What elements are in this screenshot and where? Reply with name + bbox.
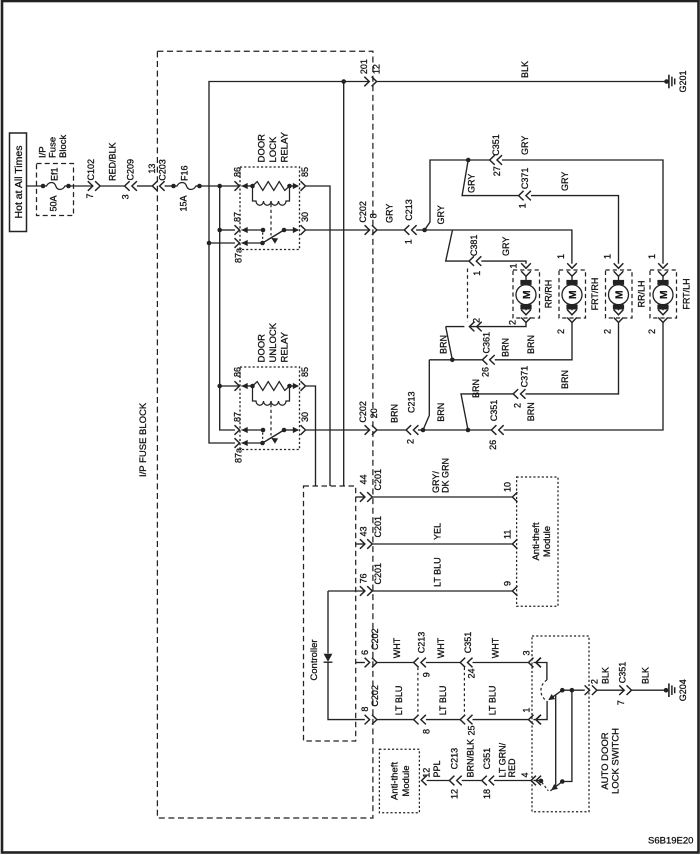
svg-text:PPL: PPL	[432, 760, 442, 777]
vertical feed column to relay 87 pins	[220, 186, 235, 430]
svg-text:2: 2	[647, 329, 657, 334]
svg-text:GRY: GRY	[520, 136, 530, 155]
svg-text:25: 25	[467, 725, 477, 735]
svg-text:9: 9	[422, 672, 432, 677]
motor FRT/LH inner bottom chevron	[658, 310, 668, 315]
motor RR/LH pin 2 chevron	[614, 318, 624, 323]
svg-text:BLK: BLK	[520, 61, 530, 78]
wire Hot-at-All-Times to fuse Ef1	[27, 185, 44, 187]
svg-text:1: 1	[472, 271, 482, 276]
wire LT BLU to switch pin 1	[473, 719, 529, 721]
ground G201	[664, 79, 669, 84]
svg-text:WHT: WHT	[436, 637, 446, 658]
svg-text:DOOR: DOOR	[256, 134, 267, 163]
main GRY wire to FRT/RH motor pin 1	[425, 230, 572, 264]
motor FRT/RH inner top chevron	[567, 271, 577, 276]
power door lock motor RR/LH box	[606, 270, 633, 318]
diagonal branch from main GRY row to C381 pin 1 row	[446, 230, 470, 261]
motor RR/LH inner top chevron	[614, 271, 624, 276]
svg-text:YEL: YEL	[433, 523, 443, 540]
power door lock motor RR/RH box	[513, 270, 540, 318]
svg-text:BRN: BRN	[471, 379, 481, 398]
svg-text:86: 86	[233, 167, 243, 177]
connector C213 pin 1	[404, 225, 409, 235]
svg-text:LT BLU: LT BLU	[488, 686, 498, 716]
switch pivot dots	[560, 688, 565, 693]
svg-text:18: 18	[482, 789, 492, 799]
svg-text:BRN/BLK: BRN/BLK	[466, 739, 476, 778]
connector C201 pin 76	[360, 586, 365, 596]
diagonal branch to C371 pin 2 row	[461, 394, 513, 430]
wire WHT to C213 pin 9	[377, 662, 414, 664]
relay pin 86 chevron	[235, 381, 240, 391]
wire unlock relay 85 down to controller	[306, 386, 316, 486]
connector C213 pin 2	[406, 425, 411, 435]
wire BRN to RR/LH motor pin 2	[526, 323, 619, 394]
svg-text:9: 9	[503, 581, 513, 586]
svg-text:C351: C351	[489, 400, 499, 422]
relay coil	[242, 183, 248, 189]
motor RR/RH inner top chevron	[521, 271, 531, 276]
connector C209 pin 3	[125, 181, 130, 191]
relay pin 87 chevron	[235, 425, 240, 435]
svg-text:GRY: GRY	[560, 172, 570, 191]
wire GRY/DK GRN to anti-theft pin 10	[372, 496, 512, 498]
ground G204	[664, 688, 669, 693]
wire lock relay 30 to C202 pin 8	[306, 229, 370, 231]
bottom BRN row to junction	[423, 429, 468, 431]
svg-text:M: M	[613, 290, 625, 299]
svg-text:8: 8	[369, 213, 379, 218]
svg-text:BLK: BLK	[641, 667, 651, 684]
svg-text:1: 1	[518, 203, 528, 208]
svg-text:13: 13	[147, 164, 157, 174]
fuse F16 15A	[171, 184, 176, 189]
svg-text:7: 7	[616, 700, 626, 705]
svg-text:4: 4	[520, 772, 530, 777]
svg-text:BRN: BRN	[501, 338, 511, 357]
svg-text:2: 2	[472, 318, 482, 323]
wire RED/BLK C102 to C209	[100, 185, 125, 187]
svg-text:3: 3	[121, 194, 131, 199]
svg-text:RR/RH: RR/RH	[544, 280, 554, 309]
svg-text:1: 1	[556, 254, 566, 259]
controller pin 6 C202 wire	[356, 662, 365, 664]
switch output wire to pin 2	[562, 689, 585, 691]
motor RR/RH pin 2 chevron	[521, 318, 531, 323]
anti-theft pin 10 chevron	[512, 492, 517, 502]
wire F16 to door lock relay pin 86	[200, 185, 240, 187]
junction dot lock relay 87a	[207, 241, 212, 246]
svg-text:BRN: BRN	[389, 404, 399, 423]
connector C202 pin 8	[365, 225, 370, 235]
svg-text:26: 26	[488, 440, 498, 450]
connector C201 pin 44	[360, 492, 365, 502]
switch pin 1 inner chevron	[536, 715, 541, 725]
switch lower pivot dot	[560, 779, 565, 784]
svg-text:Anti-theft: Anti-theft	[390, 762, 401, 800]
svg-text:201: 201	[359, 59, 369, 74]
switch pin 3 internal wire	[534, 663, 547, 681]
svg-text:Module: Module	[401, 765, 412, 796]
svg-text:Hot at All Times: Hot at All Times	[13, 146, 25, 219]
svg-text:10: 10	[503, 482, 513, 492]
svg-text:BRN: BRN	[526, 335, 536, 354]
relay armature	[263, 230, 285, 243]
svg-text:C381: C381	[469, 235, 479, 257]
svg-text:GRY/: GRY/	[431, 471, 441, 493]
connector C381 pin 1	[469, 256, 474, 266]
svg-text:AUTO DOOR: AUTO DOOR	[600, 732, 611, 789]
svg-text:8: 8	[360, 707, 370, 712]
connector C381 pin 2	[469, 322, 474, 332]
svg-text:RED/BLK: RED/BLK	[108, 142, 118, 181]
connector C203 pin 13 at fuse block boundary	[152, 181, 157, 191]
connector C202 pin 8 bottom	[365, 715, 370, 725]
svg-text:F16: F16	[180, 165, 190, 181]
motor RR/LH pin 1 chevron	[614, 263, 624, 268]
wire LT GRN/RED to switch pin 4	[494, 780, 531, 782]
power door lock motor FRT/RH box	[559, 270, 586, 318]
Controller dashed box	[304, 486, 356, 741]
svg-text:DK GRN: DK GRN	[441, 458, 451, 493]
svg-text:C213: C213	[404, 199, 414, 221]
svg-text:87a: 87a	[234, 448, 244, 463]
svg-text:50A: 50A	[49, 195, 59, 211]
relay coil	[242, 383, 248, 389]
svg-text:UNLOCK: UNLOCK	[268, 322, 279, 362]
switch pin 4 chevron	[531, 776, 536, 786]
switch pin 4 travel dashed link	[542, 782, 549, 791]
svg-text:C361: C361	[482, 332, 492, 354]
svg-text:15A: 15A	[179, 195, 189, 211]
svg-text:C371: C371	[520, 168, 530, 190]
wire LT BLU to anti-theft pin 9	[372, 590, 512, 592]
switch pin 1 internal wire	[534, 701, 548, 720]
svg-text:C209: C209	[126, 159, 136, 181]
motor RR/RH symbol	[525, 276, 527, 280]
svg-text:85: 85	[300, 167, 310, 177]
svg-text:C202: C202	[358, 401, 368, 423]
motor RR/LH inner bottom chevron	[614, 310, 624, 315]
motor FRT/LH pin 1 chevron	[658, 263, 668, 268]
connector C351 pin 24	[460, 658, 465, 668]
wire GRY to RR/RH motor pin 1	[481, 261, 526, 264]
svg-text:FRT/RH: FRT/RH	[590, 278, 600, 311]
ground wire from top run down to controller	[343, 82, 345, 487]
svg-text:GRY: GRY	[467, 174, 477, 193]
switch upper armature	[549, 690, 562, 699]
junction dot main feed to relay 87 branch	[217, 184, 222, 189]
svg-text:85: 85	[300, 367, 310, 377]
svg-text:C201: C201	[373, 563, 383, 585]
junction dot upper BRN row	[450, 358, 455, 363]
wire C209 to C203	[137, 185, 153, 187]
svg-text:6: 6	[360, 650, 370, 655]
svg-text:24: 24	[467, 668, 477, 678]
connector C351 pins 24-25 dashed link	[463, 668, 465, 715]
diagonal C381 row to upper BRN row	[446, 327, 453, 360]
svg-text:RELAY: RELAY	[279, 131, 290, 162]
connector C371 pin 2	[513, 389, 518, 399]
svg-text:BRN: BRN	[439, 335, 449, 354]
motor RR/RH pin 1 chevron	[521, 263, 531, 268]
motor FRT/RH pin 1 chevron	[567, 263, 577, 268]
svg-text:20: 20	[369, 408, 379, 418]
switch pin 3 chevrons	[529, 658, 534, 668]
junction dot bottom BRN row	[466, 428, 471, 433]
relay pin 86 chevron	[235, 181, 240, 191]
motor FRT/LH pin 2 chevron	[658, 318, 668, 323]
svg-text:C203: C203	[158, 159, 168, 181]
svg-text:7: 7	[85, 193, 95, 198]
svg-text:12: 12	[450, 789, 460, 799]
top ground wire from relay feed column to connector 201	[209, 82, 369, 244]
controller pin 76 C201 wire	[328, 590, 365, 592]
connector C351 pin 25	[460, 715, 465, 725]
I/P FUSE BLOCK dashed boundary box	[157, 51, 373, 818]
branch up to upper GRY row	[425, 160, 469, 230]
fuse Ef1 50A	[41, 184, 46, 189]
motor FRT/RH inner bottom chevron	[567, 310, 577, 315]
wire from RR/RH motor pin 2 to C381 pin 2	[469, 323, 526, 327]
svg-text:C202: C202	[370, 628, 380, 650]
relay switch contacts	[242, 427, 248, 433]
svg-text:C371: C371	[520, 366, 530, 388]
wire WHT to C351 pin 24	[426, 662, 461, 664]
wire GRY through C351 pin 27 to FRT/LH motor pin 1	[468, 159, 490, 161]
controller pin 43 C201 wire	[356, 543, 365, 545]
wire BLK to ground G201	[377, 81, 667, 83]
svg-text:Block: Block	[58, 135, 69, 158]
svg-text:1: 1	[603, 254, 613, 259]
svg-text:BRN: BRN	[526, 402, 536, 421]
svg-text:2: 2	[406, 439, 416, 444]
svg-text:27: 27	[492, 166, 502, 176]
wire to unlock relay 86	[220, 385, 240, 387]
svg-text:G201: G201	[678, 70, 688, 92]
connector C202 pin 6	[365, 658, 370, 668]
svg-text:RR/LH: RR/LH	[637, 280, 647, 307]
svg-text:BRN: BRN	[560, 370, 570, 389]
switch pin 4 contact dot	[539, 779, 544, 784]
wire fuse to C102	[69, 185, 93, 187]
svg-text:WHT: WHT	[491, 637, 501, 658]
connector C213 pins 9-8 dashed link	[417, 668, 419, 715]
door lock relay box	[240, 167, 300, 250]
wire C381 pin2 leftward	[446, 326, 465, 328]
AUTO DOOR LOCK SWITCH dotted box	[532, 636, 589, 812]
internal wire diode to pin 8	[328, 662, 365, 720]
wire unlock relay 30 to C202 pin 20	[306, 429, 370, 431]
wire BRN to C213 pin 2	[377, 429, 407, 431]
wire GRY junction	[416, 229, 425, 231]
svg-text:Anti-theft: Anti-theft	[531, 522, 542, 560]
relay switch contacts	[242, 227, 248, 233]
relay coil-armature dashed link	[270, 404, 272, 436]
switch pin 1 chevrons	[529, 715, 534, 725]
svg-text:LOCK SWITCH: LOCK SWITCH	[610, 728, 621, 794]
svg-text:RED: RED	[507, 758, 517, 778]
Anti-theft Module dotted box (middle)	[517, 477, 558, 606]
svg-text:BLK: BLK	[601, 667, 611, 684]
motor FRT/LH symbol	[662, 276, 664, 280]
svg-text:C213: C213	[417, 632, 427, 654]
relay coil-armature dashed link	[270, 204, 272, 236]
switch pin 3 inner chevron	[536, 658, 541, 668]
wire PPL to C213 pin 12	[427, 780, 450, 782]
svg-text:43: 43	[358, 526, 368, 536]
connector C381 pin1-pin2 dashed link	[467, 269, 469, 322]
power door lock motor FRT/LH box	[650, 270, 677, 318]
svg-text:87a: 87a	[234, 248, 244, 263]
svg-text:Module: Module	[542, 526, 553, 557]
svg-text:C213: C213	[407, 391, 417, 413]
controller pin 44 C201 wire	[356, 496, 365, 498]
svg-text:LT GRN/: LT GRN/	[498, 742, 508, 777]
svg-text:2: 2	[556, 329, 566, 334]
relay pin 30 chevron	[301, 425, 306, 435]
svg-text:C201: C201	[373, 516, 383, 538]
svg-text:M: M	[567, 290, 579, 299]
svg-text:I/P FUSE BLOCK: I/P FUSE BLOCK	[138, 402, 149, 477]
svg-text:12: 12	[372, 64, 382, 74]
svg-text:G204: G204	[678, 679, 688, 701]
svg-text:C351: C351	[618, 662, 628, 684]
wire LT BLU to C213 pin 8	[377, 719, 414, 721]
connector C351 pin 7	[619, 685, 624, 695]
relay pin 87a chevron	[235, 238, 240, 248]
motor FRT/RH pin 2 chevron	[567, 318, 577, 323]
svg-text:1: 1	[647, 254, 657, 259]
relay pin 87a chevron	[235, 438, 240, 448]
connector C351 pin 18	[482, 776, 487, 786]
svg-text:C202: C202	[370, 685, 380, 707]
svg-text:RELAY: RELAY	[279, 331, 290, 362]
anti-theft pin 11 chevron	[512, 539, 517, 549]
svg-text:87: 87	[233, 412, 243, 422]
Anti-theft Module dotted box (bottom)	[379, 749, 419, 812]
svg-text:C202: C202	[358, 201, 368, 223]
switch lower armature	[550, 782, 562, 791]
switch pin 2 chevrons	[585, 685, 590, 695]
switch travel dashed arc	[541, 680, 547, 701]
svg-text:Controller: Controller	[309, 639, 320, 680]
svg-text:LT BLU: LT BLU	[438, 686, 448, 716]
connector C201 pin 43	[360, 539, 365, 549]
svg-text:12: 12	[422, 768, 432, 778]
svg-text:26: 26	[481, 367, 491, 377]
wire YEL to anti-theft pin 11	[372, 543, 512, 545]
diode	[324, 654, 333, 662]
svg-text:M: M	[521, 290, 533, 299]
junction dot GRY distribution	[422, 228, 427, 233]
anti-theft pin 9 chevron	[512, 586, 517, 596]
svg-text:44: 44	[358, 474, 368, 484]
svg-text:LT BLU: LT BLU	[394, 686, 404, 716]
connector C213 pin 12	[449, 776, 454, 786]
motor FRT/LH inner top chevron	[658, 271, 668, 276]
svg-text:GRY: GRY	[436, 205, 446, 224]
junction dot upper GRY row	[466, 158, 471, 163]
wire C203 to fuse F16	[165, 185, 174, 187]
svg-text:LT BLU: LT BLU	[433, 557, 443, 587]
svg-text:C351: C351	[491, 134, 501, 156]
wire BRN through C351 pin 26 to FRT/LH motor pin 2	[468, 429, 492, 431]
connector C371 pin 1	[519, 191, 524, 201]
wire to lock relay 87	[220, 229, 235, 231]
wire BRN/BLK to C351 pin 18	[462, 780, 482, 782]
svg-text:GRY: GRY	[501, 237, 511, 256]
svg-text:M: M	[658, 290, 670, 299]
svg-text:LOCK: LOCK	[268, 136, 279, 163]
svg-text:1: 1	[403, 239, 413, 244]
svg-text:WHT: WHT	[392, 637, 402, 658]
svg-text:1: 1	[522, 708, 532, 713]
svg-text:Ef1: Ef1	[50, 167, 60, 181]
wire WHT to switch pin 3	[473, 662, 529, 664]
connector 201 pin 12	[364, 77, 369, 87]
svg-text:C201: C201	[373, 469, 383, 491]
svg-text:2: 2	[603, 329, 613, 334]
switch pin 4 internal wire	[534, 780, 542, 782]
label box "Hot at All Times"	[10, 133, 27, 232]
wire LT BLU to C351 pin 25	[426, 719, 461, 721]
relay armature	[263, 430, 285, 443]
wire lock relay 85 down to controller	[306, 186, 330, 486]
svg-text:76: 76	[358, 573, 368, 583]
svg-text:FRT/LH: FRT/LH	[682, 278, 692, 309]
wire BLK to C351 pin 7	[597, 689, 624, 691]
relay pin 85 chevron	[301, 181, 306, 191]
svg-text:86: 86	[233, 367, 243, 377]
controller internal wire with diode	[327, 591, 329, 654]
svg-text:3: 3	[522, 650, 532, 655]
svg-text:GRY: GRY	[385, 204, 395, 223]
svg-text:8: 8	[422, 729, 432, 734]
switch link verticals	[555, 695, 557, 787]
junction dot BRN at C213	[418, 429, 423, 431]
motor RR/RH inner bottom chevron	[521, 310, 531, 315]
svg-text:2: 2	[590, 679, 600, 684]
svg-text:DOOR: DOOR	[256, 334, 267, 363]
wire ground column to lock relay 87a	[209, 242, 235, 244]
svg-text:BRN: BRN	[436, 403, 446, 422]
svg-text:C351: C351	[482, 748, 492, 770]
anti-theft pin 12 chevron	[422, 776, 427, 786]
wire BLK to ground G204	[632, 689, 667, 691]
svg-text:C351: C351	[463, 632, 473, 654]
connector C213 pin 8	[414, 715, 419, 725]
relay pin 87 chevron	[235, 225, 240, 235]
switch pin 4 inner chevron	[536, 776, 541, 786]
diagonal branch to C371 pin 1 row	[462, 160, 519, 196]
svg-text:2: 2	[513, 403, 523, 408]
motor FRT/RH symbol	[571, 276, 573, 280]
connector C202 pin 20	[365, 425, 370, 435]
wire GRY to RR/LH motor pin 1	[531, 196, 619, 264]
junction dot lock relay 87	[217, 228, 222, 233]
junction dot unlock relay 86	[217, 384, 222, 389]
svg-text:S6B19E20: S6B19E20	[648, 836, 693, 847]
junction dot on top ground wire	[341, 79, 346, 84]
door unlock relay box	[240, 367, 300, 450]
svg-text:2: 2	[508, 320, 518, 325]
svg-text:87: 87	[233, 212, 243, 222]
connector C102 pin 7	[88, 181, 93, 191]
svg-text:30: 30	[300, 212, 310, 222]
svg-text:C213: C213	[450, 748, 460, 770]
